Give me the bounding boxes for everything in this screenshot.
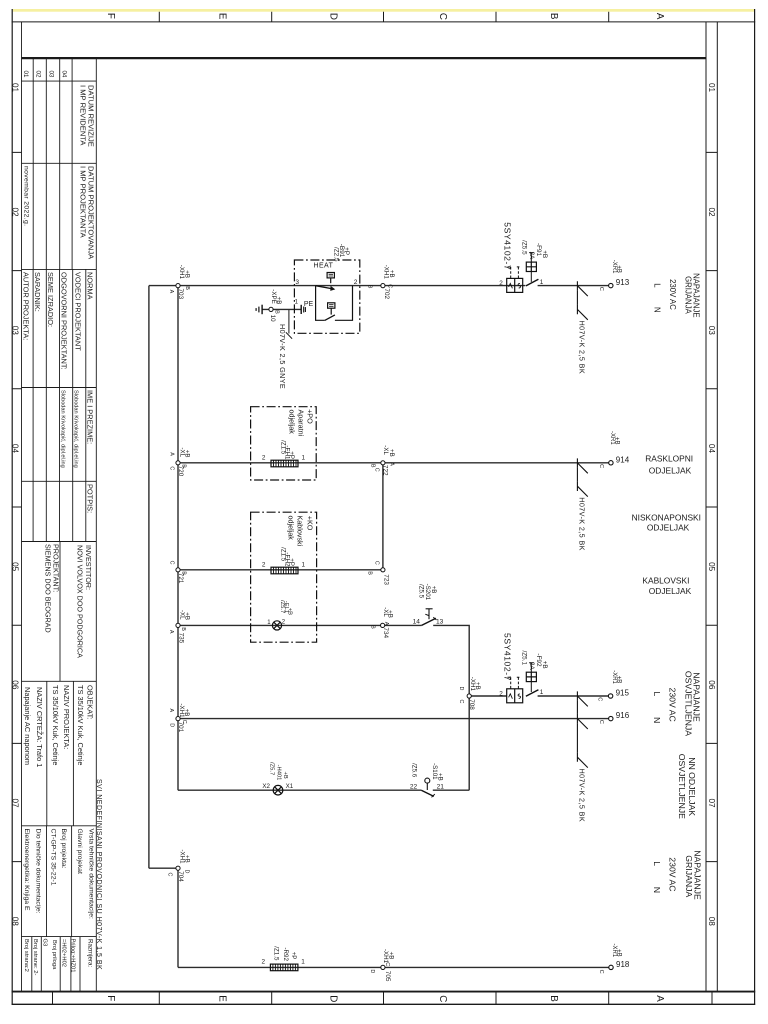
- terminal -XL:720: [168, 448, 190, 477]
- svg-text:915: 915: [616, 689, 630, 698]
- svg-text:L: L: [652, 692, 662, 697]
- svg-text:918: 918: [616, 960, 630, 969]
- svg-text:Slobodan Krivokapić, dipl.el.i: Slobodan Krivokapić, dipl.el.ing: [73, 390, 79, 468]
- svg-text:Aparatni: Aparatni: [296, 410, 305, 437]
- wire rung6 y790.2: [178, 789, 421, 791]
- svg-text:B: B: [548, 13, 559, 20]
- wire rung5 y718.6 to terminal 916: [178, 718, 609, 720]
- svg-text:H07V-K 2,5 BK: H07V-K 2,5 BK: [578, 321, 587, 375]
- svg-text:SIEMENS DOO BEOGRAD: SIEMENS DOO BEOGRAD: [44, 544, 53, 633]
- svg-text:03: 03: [11, 326, 20, 336]
- box +PO Aparatni odjeljak: [251, 407, 317, 480]
- svg-text:+B: +B: [183, 709, 190, 717]
- svg-text:Broj projekta:: Broj projekta:: [60, 829, 67, 869]
- svg-text:22: 22: [410, 784, 418, 791]
- svg-text:A: A: [168, 709, 174, 713]
- svg-text:2: 2: [262, 958, 266, 965]
- svg-text:TS 35/10kV Kuk, Cetinje: TS 35/10kV Kuk, Cetinje: [51, 685, 60, 766]
- svg-text:722: 722: [382, 465, 389, 476]
- svg-text:02: 02: [707, 208, 716, 218]
- svg-text:+B: +B: [541, 661, 548, 669]
- svg-text:H07V-K 2,5 BK: H07V-K 2,5 BK: [578, 497, 587, 551]
- svg-text:+B: +B: [183, 450, 190, 458]
- svg-text:06: 06: [11, 680, 20, 690]
- svg-text:2A: 2A: [528, 252, 535, 261]
- svg-text:ODJELJAK: ODJELJAK: [649, 466, 692, 476]
- lamp -EL1: [272, 621, 281, 630]
- device tag -B91: [332, 244, 350, 262]
- svg-text:OBJEKAT:: OBJEKAT:: [86, 685, 95, 719]
- svg-text:IME I PREZIME:: IME I PREZIME:: [86, 390, 95, 444]
- frame top letter-row bottom line: [12, 21, 756, 23]
- svg-text:GRIJANJA: GRIJANJA: [684, 855, 694, 897]
- svg-text:/Z1.5: /Z1.5: [273, 946, 280, 961]
- svg-text:08: 08: [707, 917, 716, 927]
- svg-text:/Z1.5: /Z1.5: [279, 547, 286, 562]
- svg-text:C: C: [181, 720, 187, 724]
- svg-text:E: E: [217, 13, 228, 20]
- svg-text:A: A: [383, 622, 389, 626]
- HEAT box labels: [295, 262, 358, 308]
- device -B91 HEAT thermostat box: [294, 260, 359, 333]
- svg-text:D: D: [328, 13, 339, 20]
- terminal -XR1:916: [598, 711, 630, 724]
- svg-text:3: 3: [295, 279, 299, 286]
- svg-text:14: 14: [413, 619, 421, 626]
- svg-text:F: F: [105, 13, 116, 19]
- svg-text:A: A: [168, 452, 174, 456]
- svg-text:+KO: +KO: [305, 516, 314, 531]
- svg-text:+B: +B: [388, 449, 395, 457]
- svg-text:PE: PE: [304, 301, 314, 308]
- svg-text:D: D: [458, 687, 464, 691]
- svg-text:5SY4102-7: 5SY4102-7: [502, 633, 512, 681]
- svg-text:02: 02: [34, 71, 41, 78]
- svg-text:Slobodan Krivokapić, dipl.el.i: Slobodan Krivokapić, dipl.el.ing: [60, 390, 66, 468]
- svg-text:-F92: -F92: [535, 653, 542, 667]
- svg-text:702: 702: [383, 288, 390, 299]
- svg-text:D: D: [328, 995, 339, 1002]
- wire rung4 after S201 to corner: [433, 625, 469, 790]
- svg-text:Broj strana:2: Broj strana:2: [23, 939, 29, 972]
- svg-text:2: 2: [499, 280, 503, 287]
- wire rung3 y569.8: [178, 569, 383, 571]
- terminal -XH1:701: [168, 704, 190, 733]
- heating element -EH2: [271, 567, 298, 574]
- svg-text:OSVJETLJENJE: OSVJETLJENJE: [677, 754, 687, 819]
- ground symbol: [256, 305, 262, 315]
- svg-text:B: B: [367, 571, 373, 575]
- frame outer right line: [754, 9, 756, 1005]
- cable slash on PE stub: [286, 332, 292, 338]
- svg-text:/Z5.7: /Z5.7: [269, 762, 275, 775]
- wire branch 708 to breaker F92: [469, 695, 507, 697]
- svg-text:734: 734: [382, 627, 389, 638]
- svg-text:Kablovski: Kablovski: [295, 516, 304, 547]
- svg-text:2: 2: [262, 454, 266, 461]
- svg-text:1: 1: [540, 279, 544, 286]
- svg-text:/Z5.5: /Z5.5: [418, 584, 425, 599]
- svg-text:21: 21: [437, 784, 445, 791]
- description RASKLOPNI ODJELJAK: [645, 453, 693, 475]
- svg-text:230V AC: 230V AC: [668, 857, 678, 891]
- terminal -XL:734: [370, 607, 394, 638]
- svg-text:/Z5.1: /Z5.1: [521, 651, 528, 666]
- svg-text:Dio tehničke dokumentacije:: Dio tehničke dokumentacije:: [34, 829, 41, 914]
- svg-text:RASKLOPNI: RASKLOPNI: [645, 453, 693, 463]
- svg-text:C: C: [373, 561, 379, 565]
- svg-text:2: 2: [262, 561, 266, 568]
- wire PE cable stub down: [288, 309, 290, 333]
- svg-text:E: E: [217, 995, 228, 1002]
- svg-text:/Z5.7: /Z5.7: [279, 600, 285, 613]
- svg-text:C: C: [598, 720, 604, 724]
- svg-text:C: C: [169, 561, 175, 565]
- svg-text:VODECI PROJEKTANT: VODECI PROJEKTANT: [74, 272, 83, 351]
- svg-text:916: 916: [616, 711, 630, 720]
- svg-text:C: C: [437, 995, 448, 1002]
- svg-text:10: 10: [269, 315, 276, 322]
- svg-text:G3: G3: [41, 939, 47, 947]
- svg-text:-F91: -F91: [535, 243, 542, 257]
- wire link 722-723 vertical x382.9: [382, 463, 384, 568]
- svg-text:+B: +B: [616, 949, 622, 957]
- svg-text:07: 07: [11, 799, 20, 809]
- svg-text:ODJELJAK: ODJELJAK: [647, 523, 690, 533]
- lamp -H401: [273, 785, 283, 795]
- svg-text:705: 705: [384, 971, 391, 982]
- title block section OBJEKAT: [23, 685, 95, 767]
- thermostat contact 1 symbol: [327, 273, 334, 278]
- svg-text:A: A: [654, 995, 665, 1002]
- thermostat contact 2 symbol: [328, 303, 335, 308]
- svg-text:SVI NEDEFINISANI PROVODNICI SU: SVI NEDEFINISANI PROVODNICI SU H07V-K 1,…: [95, 779, 102, 970]
- svg-text:01: 01: [22, 71, 29, 78]
- breaker F91 tag labels: [502, 222, 548, 270]
- svg-text:+B: +B: [282, 772, 288, 779]
- svg-text:01: 01: [11, 83, 20, 93]
- svg-text:B: B: [370, 625, 376, 629]
- terminal -XH1:708: [458, 677, 481, 711]
- svg-text:D: D: [369, 969, 375, 973]
- switch -S101: [421, 778, 435, 797]
- svg-text:5SY4102-7: 5SY4102-7: [502, 222, 512, 270]
- title block section INVESTITOR / PROJEKTANT: [44, 544, 94, 658]
- frame left row ticks: [12, 152, 22, 861]
- svg-text:L: L: [652, 861, 662, 866]
- svg-text:C: C: [167, 873, 173, 877]
- svg-text:NORMA: NORMA: [86, 272, 95, 300]
- svg-text:723: 723: [383, 574, 390, 585]
- svg-text:+B: +B: [183, 270, 190, 278]
- svg-text:03: 03: [707, 326, 716, 336]
- svg-text:1: 1: [540, 689, 544, 696]
- svg-text:704: 704: [177, 871, 184, 882]
- svg-text:B: B: [180, 464, 186, 468]
- svg-text:2: 2: [499, 690, 503, 697]
- description NAPAJANJE OSVJETLJENJA: [652, 671, 702, 736]
- frame bottom letter-row top thick line: [12, 991, 756, 993]
- svg-text:I MP PROJEKTANTA: I MP PROJEKTANTA: [79, 166, 88, 239]
- svg-text:C: C: [384, 962, 390, 966]
- svg-text:/Z5.6: /Z5.6: [410, 763, 417, 778]
- svg-text:/Z2.5: /Z2.5: [332, 247, 339, 262]
- svg-text:/Z1.5: /Z1.5: [279, 440, 286, 455]
- wire main vertical bus x178: [177, 286, 179, 791]
- svg-text:B: B: [184, 286, 190, 290]
- PE tee inside box: [300, 305, 302, 314]
- svg-text:B: B: [180, 571, 186, 575]
- title block revision row numbers: [22, 71, 68, 78]
- wire from 704 down to bottom rung: [177, 870, 179, 967]
- svg-text:735: 735: [178, 633, 185, 644]
- svg-text:odjeljak: odjeljak: [288, 410, 297, 435]
- svg-text:HEAT: HEAT: [314, 262, 334, 269]
- wire rung6 after S101: [433, 789, 469, 791]
- svg-text:+B: +B: [183, 612, 190, 620]
- frame right row ticks: [706, 152, 717, 861]
- svg-text:NN ODJELJAK: NN ODJELJAK: [687, 757, 697, 816]
- svg-text:05: 05: [11, 562, 20, 572]
- terminal -XPE:10: [269, 289, 282, 322]
- svg-text:B: B: [273, 310, 279, 314]
- description NN ODJELJAK OSVJETLJENJE: [677, 754, 697, 819]
- wire PE branch y309.4: [262, 308, 301, 310]
- switch -S201: [422, 609, 437, 626]
- svg-text:C: C: [387, 284, 393, 288]
- description NAPAJANJE GRIJANJA top: [652, 273, 700, 317]
- frame left row numbers 01-08: [11, 83, 20, 926]
- frame yellow top border: [13, 9, 755, 12]
- svg-text:Glavni projekat: Glavni projekat: [76, 829, 83, 874]
- frame bottom letter ticks: [53, 993, 713, 1005]
- breaker F92 tag labels: [502, 633, 548, 681]
- svg-text:Broj priloga: Broj priloga: [51, 940, 57, 970]
- svg-text:+B: +B: [184, 855, 191, 863]
- svg-text:C: C: [168, 466, 174, 470]
- svg-text:06: 06: [707, 680, 716, 690]
- title block bottom row cells: [23, 939, 94, 976]
- wire rung4 y625.4: [178, 624, 422, 626]
- svg-text:L: L: [652, 283, 661, 288]
- frame right row numbers 01-08: [707, 83, 716, 926]
- svg-text:1: 1: [301, 959, 305, 966]
- svg-text:+B: +B: [616, 265, 622, 273]
- svg-text:B: B: [367, 285, 373, 289]
- svg-text:=H02+H02: =H02+H02: [60, 939, 66, 967]
- svg-text:F: F: [105, 995, 116, 1001]
- description NAPAJANJE GRIJANJA bottom: [652, 850, 703, 900]
- svg-text:+B: +B: [474, 682, 481, 690]
- wire after breaker F92 to terminal 915: [538, 695, 609, 697]
- svg-text:+B: +B: [437, 773, 444, 781]
- title block grid: [22, 22, 97, 992]
- svg-text:A: A: [654, 13, 665, 20]
- svg-text:05: 05: [707, 562, 716, 572]
- svg-text:1: 1: [302, 562, 306, 569]
- svg-text:NOVI VOLVOX DOO PODGORICA: NOVI VOLVOX DOO PODGORICA: [76, 545, 85, 658]
- wire left branch vertical x148.9: [148, 286, 150, 869]
- svg-text:N: N: [653, 307, 662, 313]
- terminal -XH1:704: [167, 850, 191, 883]
- svg-text:2: 2: [354, 279, 358, 286]
- svg-text:KABLOVSKI: KABLOVSKI: [642, 576, 689, 586]
- terminal -XL:735: [168, 610, 190, 644]
- frame top letter ticks: [159, 12, 608, 22]
- svg-text:ODGOVORNI PROJEKTANT:: ODGOVORNI PROJEKTANT:: [60, 272, 69, 370]
- svg-text:OSVJETLJENJA: OSVJETLJENJA: [684, 671, 694, 736]
- terminal -XL:722: [369, 445, 395, 476]
- svg-text:H07V-K 2,5 BK: H07V-K 2,5 BK: [578, 769, 587, 823]
- breaker -F92: [507, 663, 539, 703]
- svg-text:13: 13: [436, 619, 444, 626]
- svg-text:913: 913: [616, 278, 630, 287]
- svg-text:POTPIS:: POTPIS:: [86, 484, 95, 513]
- terminal -XR1:913: [598, 260, 630, 291]
- svg-text:SEME IZRADIO:: SEME IZRADIO:: [46, 272, 55, 327]
- svg-text:novembar 2022.g.: novembar 2022.g.: [22, 166, 29, 226]
- svg-text:TS 35/10kV Kuk, Cetinje: TS 35/10kV Kuk, Cetinje: [76, 685, 85, 766]
- svg-text:Razmjera:: Razmjera:: [86, 939, 93, 967]
- description KABLOVSKI ODJELJAK: [642, 576, 691, 596]
- frame bottom letters F E D C B A: [105, 995, 665, 1002]
- svg-text:+B: +B: [541, 250, 548, 258]
- svg-text:2A: 2A: [528, 662, 535, 671]
- svg-text:X2: X2: [262, 783, 270, 790]
- svg-text:+B: +B: [616, 676, 622, 684]
- svg-text:A: A: [388, 462, 394, 466]
- svg-text:AUTOR PROJEKTA:: AUTOR PROJEKTA:: [22, 272, 31, 340]
- heating element -EH1: [271, 460, 298, 467]
- svg-text:07: 07: [707, 799, 716, 809]
- description NISKONAPONSKI ODJELJAK: [632, 512, 701, 532]
- svg-text:708: 708: [468, 699, 475, 710]
- svg-text:Broj strane: 2-: Broj strane: 2-: [32, 939, 38, 975]
- svg-text:C: C: [437, 13, 448, 20]
- svg-text:Napajanje AC naponom: Napajanje AC naponom: [23, 687, 32, 765]
- svg-text:H07V-K 2,5 GNYE: H07V-K 2,5 GNYE: [278, 324, 287, 389]
- cable symbol rung2: [577, 458, 587, 496]
- svg-text:C: C: [374, 468, 380, 472]
- svg-text:ODJELJAK: ODJELJAK: [649, 586, 692, 596]
- terminal -XH1:702: [367, 265, 395, 300]
- svg-text:1: 1: [302, 455, 306, 462]
- terminal -XR1:915: [597, 670, 630, 701]
- svg-text:230V AC: 230V AC: [668, 279, 677, 310]
- thermostat inner loop: [316, 286, 325, 321]
- svg-text:+B: +B: [275, 297, 282, 305]
- title block section DATUM REVIZIJE: [22, 85, 95, 260]
- svg-text:04: 04: [11, 444, 20, 454]
- svg-text:+P: +P: [343, 247, 350, 255]
- svg-text:-R92: -R92: [282, 948, 289, 962]
- breaker -F91: [507, 253, 539, 293]
- terminal 723: [367, 561, 390, 586]
- svg-text:-H401: -H401: [275, 765, 281, 781]
- terminal 721: [169, 561, 187, 584]
- svg-text:+PO: +PO: [305, 409, 314, 424]
- svg-text:Elektroenergetika: Knjiga E: Elektroenergetika: Knjiga E: [23, 829, 30, 911]
- svg-text:C: C: [597, 697, 603, 701]
- cable symbol rung1: [577, 281, 587, 320]
- svg-text:+B: +B: [614, 437, 620, 445]
- wire bottom rung to terminal 918: [178, 966, 609, 968]
- svg-text:C: C: [598, 464, 604, 468]
- frame right number strip lines: [706, 22, 717, 992]
- svg-text:C: C: [458, 700, 464, 704]
- box +KO Kablovski odjeljak: [251, 512, 317, 642]
- svg-text:NAZIV PROJEKTA:: NAZIV PROJEKTA:: [62, 685, 71, 749]
- svg-text:08: 08: [11, 917, 20, 927]
- frame outer left line: [11, 9, 13, 1005]
- wire jog to terminal 704: [149, 867, 176, 869]
- svg-text:+B: +B: [388, 270, 395, 278]
- terminal -XR1:918: [598, 944, 630, 974]
- svg-text:N: N: [652, 717, 662, 723]
- resistor -R92: [270, 964, 298, 971]
- terminal -XR1:914: [598, 431, 630, 468]
- title block section Vrsta dokumentacije: [23, 829, 95, 920]
- svg-text:02: 02: [11, 208, 20, 218]
- svg-text:A: A: [168, 630, 174, 634]
- frame top letters F E D C B A: [105, 13, 665, 20]
- cable symbol rung5 three conductors: [577, 691, 587, 767]
- svg-text:NISKONAPONSKI: NISKONAPONSKI: [632, 512, 701, 522]
- title block section NORMA rows: [22, 272, 95, 513]
- svg-text:SARADNIK:: SARADNIK:: [33, 272, 42, 312]
- frame outer bottom line: [12, 1003, 756, 1005]
- terminal -XH1:703: [168, 265, 191, 300]
- svg-text:odjeljak: odjeljak: [286, 516, 295, 541]
- svg-text:NAZIV CRTEŽA: Trafo 1: NAZIV CRTEŽA: Trafo 1: [35, 687, 44, 767]
- svg-text:B: B: [180, 627, 186, 631]
- svg-text:+B: +B: [387, 952, 394, 960]
- svg-text:+B: +B: [430, 586, 437, 594]
- svg-text:Vrsta tehničke dokumentacije:: Vrsta tehničke dokumentacije:: [87, 829, 94, 920]
- svg-text:230V AC: 230V AC: [668, 688, 678, 722]
- svg-text:D: D: [184, 870, 190, 874]
- svg-text:/Z5.5: /Z5.5: [521, 240, 528, 255]
- svg-text:914: 914: [616, 455, 630, 464]
- svg-text:03: 03: [48, 71, 55, 78]
- svg-text:B: B: [548, 995, 559, 1002]
- svg-text:GRIJANJA: GRIJANJA: [683, 276, 692, 314]
- svg-text:A: A: [168, 290, 174, 294]
- frame inner top thick line: [22, 57, 707, 59]
- svg-text:CT-GP-TS 35-22-1: CT-GP-TS 35-22-1: [50, 829, 57, 886]
- svg-text:N: N: [652, 887, 662, 893]
- svg-text:D: D: [169, 723, 175, 727]
- svg-text:04: 04: [61, 71, 68, 78]
- svg-text:04: 04: [707, 444, 716, 454]
- svg-text:C: C: [598, 970, 604, 974]
- svg-text:Prilog:+HZ01: Prilog:+HZ01: [69, 939, 75, 973]
- wire rung1 after breaker F91 to terminal 913: [538, 285, 609, 287]
- wire rung2 y462.8 to terminal 914: [178, 462, 609, 464]
- svg-text:703: 703: [177, 289, 184, 300]
- svg-text:+P: +P: [290, 952, 297, 960]
- svg-text:C: C: [598, 287, 604, 291]
- svg-text:I MP REVIDENTA: I MP REVIDENTA: [79, 85, 88, 146]
- wire rung1 L segment A-B horizontal y285.6: [149, 285, 525, 287]
- svg-text:01: 01: [707, 83, 716, 93]
- svg-text:X1: X1: [286, 783, 294, 790]
- terminal -XH1:705: [369, 949, 395, 982]
- svg-text:+B: +B: [387, 610, 394, 618]
